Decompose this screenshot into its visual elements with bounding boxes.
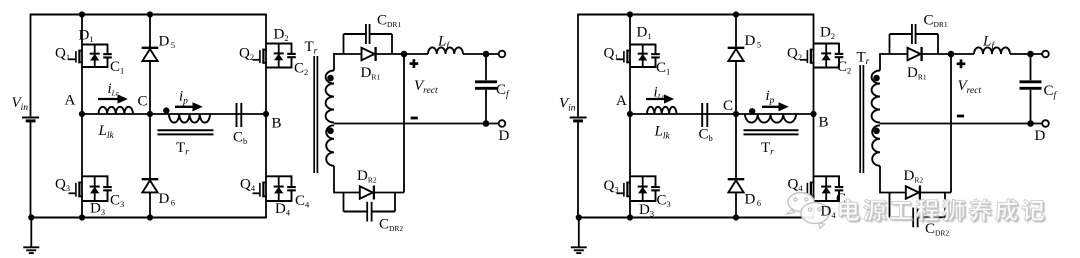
secondary winding upper (left circuit) [326, 53, 334, 122]
junction bottom rail / D6 leg (right circuit) [733, 214, 739, 220]
label L_lk (left circuit) [98, 123, 115, 141]
label C_b (right circuit) [699, 127, 713, 144]
wire leg D5/D6 (left circuit) [149, 15, 151, 218]
plus sign (left circuit) [410, 59, 419, 68]
snubber capacitor C1 (right circuit) [651, 44, 660, 68]
wire secondary bottom to riser (left circuit) [334, 192, 404, 194]
label D terminal (left circuit) [499, 128, 510, 144]
snubber capacitor C1 (left circuit) [103, 44, 112, 68]
current arrow i_Lr (left circuit) [98, 94, 128, 103]
inductor L_lk (right circuit) [647, 107, 677, 114]
node A (right circuit) [616, 93, 633, 117]
polarity dot secondary upper (left circuit) [327, 75, 334, 82]
diode DR2 (left circuit) [360, 186, 374, 200]
capacitor C_DR1 (left circuit) [344, 24, 393, 54]
label C4 (right circuit) [836, 191, 851, 208]
wire riser DR2 to + node (left circuit) [403, 54, 405, 193]
body diode D3 (right circuit) [638, 176, 648, 201]
node C (left circuit) [138, 94, 154, 118]
junction bottom rail / D6 leg (left circuit) [147, 214, 153, 220]
body diode D2 (left circuit) [274, 44, 284, 68]
wire leg Q2/Q4 (right circuit) [813, 14, 815, 219]
inductor L_f (right circuit) [974, 47, 1010, 54]
junction bottom rail / Q3 leg (left circuit) [79, 214, 85, 220]
label C_DR1 (right circuit) [924, 13, 948, 30]
label Q1 (right circuit) [604, 46, 619, 63]
label D6 (right circuit) [745, 192, 762, 209]
wire bottom rail (right circuit) [578, 217, 814, 219]
capacitor C_b (right circuit) [702, 103, 707, 127]
diode D5 (right circuit) [728, 48, 745, 61]
svg-text:C: C [723, 98, 733, 114]
label D6 (left circuit) [159, 191, 176, 208]
node B (left circuit) [263, 111, 282, 132]
transistor Q3 (left circuit) [69, 176, 108, 201]
wire center tap to - terminal (right circuit) [880, 123, 1046, 125]
junction Cf top (left circuit) [483, 51, 490, 58]
minus sign (right circuit) [957, 115, 964, 118]
label D terminal (right circuit) [1035, 128, 1046, 144]
svg-text:D: D [499, 128, 510, 144]
wire Lf to + terminal (left circuit) [463, 53, 499, 55]
label Tr primary (left circuit) [176, 140, 189, 158]
label C_DR2 (left circuit) [379, 217, 403, 234]
battery V_in (left circuit) [22, 118, 39, 121]
node A (left circuit) [65, 93, 86, 118]
svg-text:B: B [272, 116, 282, 132]
label L_f (right circuit) [982, 34, 995, 52]
snubber capacitor C3 (right circuit) [651, 175, 660, 202]
ground (left circuit) [23, 214, 39, 253]
inductor L_lk (left circuit) [99, 107, 134, 114]
wire center tap to - terminal (left circuit) [334, 123, 502, 125]
label D2 (right circuit) [820, 25, 835, 42]
label C3 (right circuit) [657, 193, 671, 210]
label Q3 (right circuit) [604, 178, 619, 195]
label V_in (left circuit) [12, 95, 29, 113]
wire leg Q1/Q3 (right circuit) [629, 15, 631, 218]
terminal + output (left circuit) [499, 51, 506, 58]
junction top rail / D5 leg (left circuit) [147, 11, 153, 17]
snubber capacitor C4 (right circuit) [835, 175, 844, 202]
watermark logo [787, 193, 829, 229]
label V_rect (right circuit) [958, 78, 982, 96]
primary winding Tr (left circuit) [169, 114, 210, 123]
wire leg D5/D6 (right circuit) [735, 15, 737, 218]
polarity dot secondary lower (right circuit) [873, 128, 880, 135]
secondary winding lower (left circuit) [326, 125, 334, 193]
label C_DR1 (left circuit) [377, 13, 401, 30]
current arrow i_p (right circuit) [762, 102, 789, 111]
label C_f (left circuit) [496, 82, 510, 100]
svg-text:D: D [1035, 128, 1046, 144]
junction top rail / Q1 leg (left circuit) [79, 11, 85, 17]
capacitor C_DR2 (left circuit) [344, 193, 396, 222]
core lines secondary (right circuit) [860, 65, 863, 173]
label Tr secondary (left circuit) [305, 39, 318, 57]
svg-text:A: A [65, 93, 76, 109]
body diode D4 (right circuit) [821, 176, 831, 201]
snubber capacitor C4 (left circuit) [287, 175, 296, 202]
capacitor C_DR2 (right circuit) [890, 193, 946, 228]
transistor Q2 (left circuit) [253, 44, 292, 68]
core lines primary (right circuit) [744, 130, 799, 134]
transistor Q4 (left circuit) [253, 176, 292, 201]
capacitor C_DR1 (right circuit) [890, 24, 939, 54]
label L_lk (right circuit) [654, 124, 671, 142]
label D3 (left circuit) [90, 201, 105, 218]
label DR2 (right circuit) [904, 168, 924, 185]
terminal D output (right circuit) [1042, 120, 1049, 127]
core lines secondary (left circuit) [314, 56, 317, 173]
label C1 (left circuit) [110, 59, 124, 76]
wire secondary top to + node (right circuit) [880, 53, 951, 55]
diode DR2 (right circuit) [906, 186, 920, 200]
node B (right circuit) [810, 111, 828, 131]
minus sign (left circuit) [411, 117, 418, 120]
transistor Q1 (right circuit) [617, 45, 656, 68]
transistor Q2 (right circuit) [800, 44, 839, 68]
label Q3 (left circuit) [55, 177, 70, 194]
label D2 (left circuit) [274, 27, 289, 44]
label DR1 (right circuit) [907, 65, 927, 82]
wire Lf to + terminal (right circuit) [1010, 53, 1043, 55]
current arrow i_Lr (right circuit) [646, 94, 674, 103]
diode DR1 (left circuit) [362, 47, 376, 61]
diode D5 (left circuit) [142, 48, 159, 61]
label D4 (left circuit) [275, 201, 291, 218]
label i_Lr (left circuit) [108, 81, 119, 98]
junction Cf bottom (right circuit) [1027, 120, 1034, 127]
label C1 (right circuit) [656, 60, 670, 77]
core lines primary (left circuit) [158, 130, 214, 134]
wire leg Q2/Q4 (left circuit) [265, 14, 267, 219]
wire node A to node B (right circuit) [630, 113, 814, 115]
node + (left circuit) [401, 51, 408, 58]
body diode D1 (right circuit) [638, 45, 648, 68]
label Tr primary (right circuit) [761, 140, 774, 158]
transistor Q3 (right circuit) [617, 176, 656, 201]
wire leg Q1/Q3 (left circuit) [81, 15, 83, 218]
label DR2 (left circuit) [357, 168, 377, 185]
wire top rail (left circuit) [31, 14, 267, 219]
body diode D1 (left circuit) [90, 45, 100, 68]
primary winding Tr (right circuit) [745, 114, 796, 123]
junction top rail / D5 leg (right circuit) [733, 11, 739, 17]
diode DR1 (right circuit) [908, 47, 922, 61]
wire secondary top to + node (left circuit) [334, 53, 404, 55]
watermark text 电源工程狮养成记 [839, 199, 1046, 223]
body diode D2 (right circuit) [821, 44, 831, 68]
label C_f (right circuit) [1044, 83, 1058, 101]
wire top rail (right circuit) [578, 14, 814, 219]
label D3 (right circuit) [639, 202, 654, 219]
diode D6 (right circuit) [728, 179, 745, 192]
wire bottom rail (left circuit) [31, 217, 267, 219]
label C_b (left circuit) [233, 130, 247, 147]
label Q1 (left circuit) [55, 46, 70, 63]
label i_p (left circuit) [179, 89, 188, 107]
snubber capacitor C2 (right circuit) [835, 43, 844, 69]
battery V_in (right circuit) [570, 118, 587, 121]
label D5 (right circuit) [745, 33, 762, 50]
polarity dot primary (left circuit) [163, 107, 169, 113]
secondary winding upper (right circuit) [872, 53, 880, 122]
current arrow i_p (left circuit) [175, 102, 203, 111]
wire secondary bottom to riser (right circuit) [880, 192, 951, 194]
label C3 (left circuit) [110, 193, 124, 210]
transistor Q4 (right circuit) [800, 176, 839, 201]
label V_in (right circuit) [559, 96, 576, 114]
body diode D3 (left circuit) [90, 176, 100, 201]
snubber capacitor C3 (left circuit) [103, 175, 112, 202]
junction Cf top (right circuit) [1027, 51, 1034, 58]
label i_p (right circuit) [766, 88, 775, 106]
capacitor C_f (right circuit) [1020, 54, 1042, 124]
junction bottom rail / Q3 leg (right circuit) [627, 214, 633, 220]
label Q4 (left circuit) [240, 177, 256, 194]
svg-text:A: A [616, 93, 627, 109]
terminal D output (left circuit) [499, 120, 506, 127]
label L_f (left circuit) [437, 34, 450, 52]
wire node A to node B (left circuit) [82, 113, 266, 115]
capacitor C_b (left circuit) [237, 103, 242, 127]
label DR1 (left circuit) [361, 65, 381, 82]
node C (right circuit) [723, 98, 739, 117]
secondary winding lower (right circuit) [872, 125, 880, 193]
label D1 (right circuit) [637, 25, 652, 42]
capacitor C_f (left circuit) [475, 54, 497, 124]
terminal + output (right circuit) [1042, 51, 1049, 58]
ground (right circuit) [571, 214, 587, 253]
transistor Q1 (left circuit) [69, 45, 108, 68]
node + (right circuit) [948, 51, 955, 58]
label C4 (left circuit) [295, 193, 310, 210]
label V_rect (left circuit) [414, 78, 438, 96]
label Q2 (left circuit) [239, 46, 254, 63]
wire riser DR2 to + node (right circuit) [950, 54, 952, 193]
label D1 (left circuit) [79, 28, 94, 45]
inductor L_f (left circuit) [428, 47, 463, 54]
label C2 (left circuit) [294, 61, 308, 78]
junction Cf bottom (left circuit) [483, 120, 490, 127]
label D4 (right circuit) [821, 204, 837, 221]
polarity dot secondary lower (left circuit) [327, 128, 334, 135]
wire + node to Lf (right circuit) [951, 53, 974, 55]
polarity dot primary (right circuit) [749, 108, 755, 114]
label i_Lr (right circuit) [654, 85, 665, 102]
label Q4 (right circuit) [788, 177, 804, 194]
label D5 (left circuit) [159, 34, 176, 51]
snubber capacitor C2 (left circuit) [287, 43, 296, 69]
polarity dot secondary upper (right circuit) [873, 75, 880, 82]
label Q2 (right circuit) [787, 46, 802, 63]
svg-text:C: C [138, 94, 148, 110]
svg-text:B: B [819, 115, 829, 131]
junction top rail / Q1 leg (right circuit) [627, 11, 633, 17]
label Tr secondary (right circuit) [857, 50, 870, 68]
body diode D4 (left circuit) [274, 176, 284, 201]
diode D6 (left circuit) [142, 179, 159, 192]
plus sign (right circuit) [957, 59, 966, 68]
label C_DR2 (right circuit) [925, 221, 949, 238]
wire + node to Lf (left circuit) [404, 53, 428, 55]
label C2 (right circuit) [837, 59, 851, 76]
